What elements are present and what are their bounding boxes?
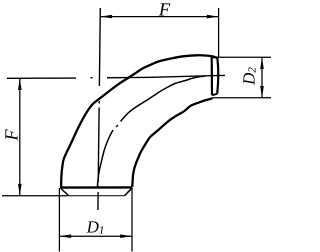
dimension F top: right arrow xyxy=(207,15,219,19)
bottom face bottom edge xyxy=(69,195,125,197)
dimension F top: dimension line xyxy=(100,16,218,18)
dimension D1: right arrow xyxy=(120,234,132,238)
dimension F top: left arrow xyxy=(100,15,112,19)
bore centerline arc (dash-dot) xyxy=(97,76,205,186)
svg-text:D1: D1 xyxy=(86,217,105,236)
dimension D2: down arrow xyxy=(260,86,264,98)
outer arc of elbow xyxy=(61,55,217,188)
dimension F left: up arrow xyxy=(18,78,22,90)
right face bottom edge (thick) xyxy=(212,94,217,95)
svg-text:F: F xyxy=(3,129,23,142)
dimension D2: up arrow xyxy=(260,57,264,69)
bottom face right slant xyxy=(125,188,133,196)
right face left edge (thick) xyxy=(211,57,214,95)
dimension D2: dimension line xyxy=(261,57,263,98)
horizontal centerline: right dash xyxy=(107,75,225,77)
bottom face top edge (thick) xyxy=(61,186,132,189)
horizontal centerline: left dash xyxy=(7,77,76,79)
dimension D2: top extension line xyxy=(218,56,272,58)
horizontal centerline: dot xyxy=(91,77,93,79)
right face right edge (thick) xyxy=(217,57,218,93)
svg-text:D2: D2 xyxy=(240,67,259,86)
dimension F left: down arrow xyxy=(18,184,22,196)
inner arc of elbow xyxy=(132,98,212,187)
dimension D1: left extension line xyxy=(58,188,60,252)
dimension F left: dimension line xyxy=(19,78,21,196)
vertical centerline of bottom opening (dash-dot) xyxy=(98,8,100,210)
dimension D2: bottom extension line xyxy=(213,97,272,99)
right face top edge (thick) xyxy=(212,56,218,58)
svg-text:F: F xyxy=(158,1,171,21)
dimension D1: dimension line xyxy=(59,235,132,237)
dimension F top: extension line right xyxy=(218,8,220,57)
dimension D1: right extension line xyxy=(131,189,133,252)
dimension F left: bottom extension line xyxy=(2,195,68,197)
dimension D1: left arrow xyxy=(59,234,71,238)
bottom face left slant xyxy=(61,189,69,196)
